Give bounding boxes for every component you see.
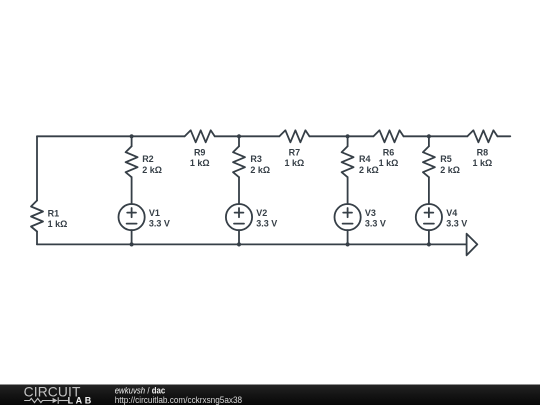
svg-text:3.3 V: 3.3 V xyxy=(149,218,170,228)
svg-text:1 kΩ: 1 kΩ xyxy=(473,158,493,168)
svg-text:2 kΩ: 2 kΩ xyxy=(359,165,379,175)
svg-text:R5: R5 xyxy=(440,154,452,164)
svg-text:R6: R6 xyxy=(383,147,395,157)
svg-text:V2: V2 xyxy=(256,208,267,218)
svg-text:2 kΩ: 2 kΩ xyxy=(440,165,460,175)
svg-text:V1: V1 xyxy=(149,208,160,218)
svg-text:3.3 V: 3.3 V xyxy=(365,218,386,228)
svg-text:3.3 V: 3.3 V xyxy=(446,218,467,228)
svg-text:R4: R4 xyxy=(359,154,371,164)
svg-text:http://circuitlab.com/cckrxsng: http://circuitlab.com/cckrxsng5ax38 xyxy=(115,395,242,405)
svg-text:1 kΩ: 1 kΩ xyxy=(190,158,210,168)
svg-text:1 kΩ: 1 kΩ xyxy=(379,158,399,168)
svg-text:R9: R9 xyxy=(194,147,206,157)
svg-text:LAB: LAB xyxy=(68,395,94,405)
svg-text:3.3 V: 3.3 V xyxy=(256,218,277,228)
svg-text:2 kΩ: 2 kΩ xyxy=(142,165,162,175)
svg-text:V4: V4 xyxy=(446,208,457,218)
svg-text:R7: R7 xyxy=(289,147,301,157)
svg-text:1 kΩ: 1 kΩ xyxy=(48,219,68,229)
svg-text:R8: R8 xyxy=(477,147,489,157)
svg-text:R1: R1 xyxy=(48,208,60,218)
svg-text:R3: R3 xyxy=(250,154,262,164)
svg-text:V3: V3 xyxy=(365,208,376,218)
svg-text:R2: R2 xyxy=(142,154,154,164)
svg-text:1 kΩ: 1 kΩ xyxy=(285,158,305,168)
svg-text:2 kΩ: 2 kΩ xyxy=(250,165,270,175)
